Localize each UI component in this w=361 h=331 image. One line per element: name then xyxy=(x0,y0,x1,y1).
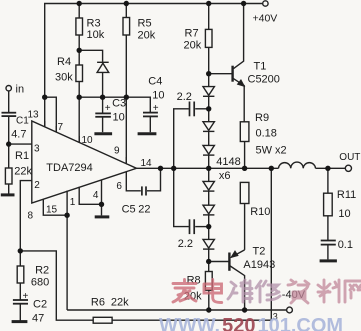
svg-text:680: 680 xyxy=(31,277,49,289)
svg-text:4: 4 xyxy=(93,190,99,201)
svg-text:C4: C4 xyxy=(148,75,162,87)
svg-text:3: 3 xyxy=(34,144,40,155)
svg-text:22k: 22k xyxy=(111,297,129,309)
svg-text:10: 10 xyxy=(82,135,94,146)
svg-text:0.18: 0.18 xyxy=(256,127,277,139)
svg-text:20k: 20k xyxy=(138,30,156,42)
svg-text:R7: R7 xyxy=(185,28,199,40)
svg-text:15: 15 xyxy=(46,205,58,216)
svg-text:2.2: 2.2 xyxy=(178,238,193,250)
svg-text:4148: 4148 xyxy=(216,156,240,168)
svg-text:C2: C2 xyxy=(33,298,47,310)
svg-text:2: 2 xyxy=(34,180,40,191)
svg-text:1: 1 xyxy=(70,197,76,208)
svg-text:13: 13 xyxy=(28,110,40,121)
svg-text:+: + xyxy=(153,103,159,114)
svg-text:20k: 20k xyxy=(184,40,202,52)
svg-text:R10: R10 xyxy=(250,206,270,218)
svg-text:R4: R4 xyxy=(57,56,71,68)
svg-text:in: in xyxy=(16,84,25,96)
svg-text:10: 10 xyxy=(152,90,164,102)
svg-text:WWW.520101.COM: WWW.520101.COM xyxy=(159,315,343,331)
svg-text:10: 10 xyxy=(338,208,350,220)
svg-text:22: 22 xyxy=(138,204,150,216)
svg-text:R2: R2 xyxy=(35,264,49,276)
svg-text:22k: 22k xyxy=(14,165,32,177)
svg-text:T2: T2 xyxy=(253,245,266,257)
svg-text:R9: R9 xyxy=(255,112,269,124)
svg-text:R11: R11 xyxy=(337,189,356,201)
svg-text:+: + xyxy=(23,291,29,302)
svg-text:A1943: A1943 xyxy=(243,259,275,271)
svg-text:10: 10 xyxy=(113,111,125,123)
svg-text:14: 14 xyxy=(141,158,153,169)
svg-text:C3: C3 xyxy=(112,97,126,109)
svg-text:7: 7 xyxy=(58,122,64,133)
svg-text:C5: C5 xyxy=(122,204,136,216)
svg-text:OUT: OUT xyxy=(339,152,360,163)
svg-text:R5: R5 xyxy=(138,18,152,30)
svg-text:R6: R6 xyxy=(91,297,105,309)
svg-text:C5200: C5200 xyxy=(248,74,280,86)
svg-text:8: 8 xyxy=(28,211,34,222)
svg-text:47: 47 xyxy=(32,313,44,325)
svg-text:30k: 30k xyxy=(55,72,73,84)
svg-text:10k: 10k xyxy=(87,29,105,41)
svg-text:9: 9 xyxy=(114,145,120,156)
svg-text:+: + xyxy=(105,103,111,114)
svg-text:2.2: 2.2 xyxy=(177,91,192,103)
svg-text:x6: x6 xyxy=(219,170,231,182)
svg-text:R3: R3 xyxy=(87,18,101,30)
svg-text:T1: T1 xyxy=(254,61,267,73)
svg-text:5W x2: 5W x2 xyxy=(256,144,287,156)
svg-text:+40V: +40V xyxy=(253,13,278,25)
svg-text:R1: R1 xyxy=(15,150,29,162)
svg-text:0.1: 0.1 xyxy=(338,239,353,251)
svg-text:4.7: 4.7 xyxy=(11,129,26,141)
svg-text:TDA7294: TDA7294 xyxy=(46,162,92,174)
svg-text:6: 6 xyxy=(116,181,122,192)
